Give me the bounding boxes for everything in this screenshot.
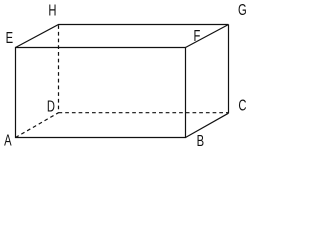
svg-text:H: H	[48, 0, 56, 19]
svg-text:C: C	[238, 95, 246, 114]
svg-text:A: A	[4, 130, 12, 149]
svg-text:D: D	[47, 96, 55, 115]
svg-text:B: B	[197, 131, 204, 150]
svg-text:F: F	[193, 26, 200, 45]
svg-text:E: E	[6, 28, 13, 47]
svg-text:G: G	[238, 0, 247, 19]
